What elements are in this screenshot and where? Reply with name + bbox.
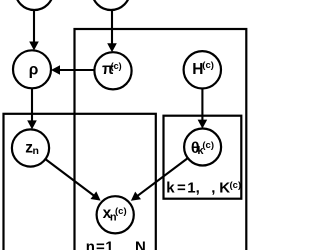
node H(c) [184, 51, 221, 88]
svg-text:ρ: ρ [29, 62, 39, 79]
edge pi -> rho (horizontal arrow) [51, 65, 95, 75]
edge rho -> z_n (vertical arrow) [27, 88, 37, 129]
edge hyperprior2 -> pi (vertical arrow) [107, 10, 117, 53]
plate c (classes), bottom cut off [75, 29, 247, 250]
edge H -> theta (vertical arrow) [198, 89, 208, 129]
node z_n [12, 129, 49, 166]
node hyperprior2 (cut off at top) [92, 0, 130, 10]
plate label k = 1, . . . , K(c) [166, 180, 241, 197]
node rho [13, 50, 51, 88]
node x_n(c) (observed) [97, 196, 134, 233]
plate k = 1..K(c) [164, 116, 242, 199]
node theta_k(c) [184, 129, 221, 166]
edge theta -> x_n (diagonal arrow) [131, 158, 188, 201]
edge z_n -> x_n (diagonal arrow) [45, 159, 100, 201]
edge hyperprior1 -> rho (vertical arrow) [29, 10, 39, 51]
plate n = 1..N, bottom cut off [4, 114, 156, 250]
svg-text:n=1,,N: n=1,,N [86, 239, 146, 250]
svg-text:k=1,,K(c): k=1,,K(c) [166, 180, 241, 197]
node hyperprior1 (cut off at top) [15, 0, 53, 10]
plate label n = 1, . . . , N (cut off at bottom) [86, 239, 146, 250]
node pi(c) [94, 52, 131, 89]
